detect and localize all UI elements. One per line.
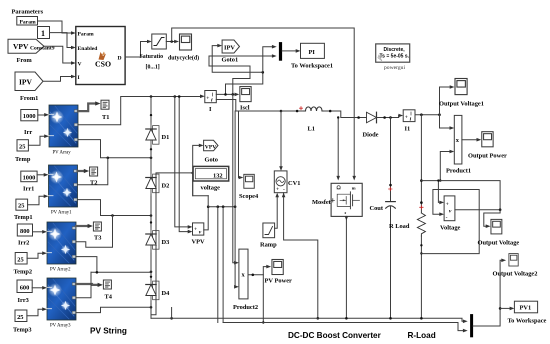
wire IPV to CSO I bbox=[43, 75, 76, 82]
svg-text:Output Voltage: Output Voltage bbox=[478, 240, 520, 247]
wire Irr1 to PV Array1 bbox=[37, 173, 48, 177]
wire product2 input1 drop bbox=[233, 94, 239, 264]
svg-text:m: m bbox=[352, 185, 356, 190]
wire display feed from PV string bottom bbox=[152, 173, 193, 315]
wire CV1 minus to return bus bbox=[282, 193, 319, 320]
svg-text:Voltage: Voltage bbox=[440, 225, 461, 232]
svg-text:Temp2: Temp2 bbox=[14, 269, 33, 276]
svg-text:+: + bbox=[405, 115, 408, 121]
svg-text:Irr3: Irr3 bbox=[18, 297, 29, 304]
scope Output Voltage2 bbox=[509, 254, 518, 266]
wire top node to I block bbox=[151, 95, 205, 99]
svg-text:T4: T4 bbox=[105, 294, 113, 301]
svg-text:I: I bbox=[78, 75, 80, 81]
voltage measurement block VPV bbox=[193, 223, 204, 236]
capacitor Cout wire lower bbox=[390, 207, 392, 318]
svg-text:Mosfet: Mosfet bbox=[312, 199, 332, 206]
wire I minus to main line bbox=[216, 100, 281, 112]
svg-text:V: V bbox=[78, 62, 82, 68]
junction top node VPV tap bbox=[174, 95, 177, 98]
constant Temp2 25 bbox=[15, 253, 27, 265]
wire L1 to switch node bbox=[325, 111, 363, 118]
constant Irr2 800 bbox=[17, 224, 32, 236]
svg-text:Irr2: Irr2 bbox=[18, 240, 29, 247]
wire VPV plus tap from top node bbox=[175, 97, 193, 229]
svg-text:Ramp: Ramp bbox=[260, 242, 277, 249]
svg-text:Temp1: Temp1 bbox=[14, 214, 33, 221]
junction above D3 bbox=[150, 221, 152, 223]
junction below D1 bbox=[150, 148, 152, 150]
current measurement block I1 bbox=[403, 110, 415, 123]
junction I signal tap A bbox=[224, 93, 227, 96]
powergui block bbox=[376, 44, 410, 62]
junction top node D bus bbox=[150, 95, 153, 98]
junction I signal tap B bbox=[232, 93, 235, 96]
svg-text:Diode: Diode bbox=[363, 132, 379, 139]
wire PV Array1 m to T2 (thick) bbox=[78, 170, 85, 172]
wire PV4 minus to bottom node bbox=[76, 307, 151, 312]
svg-text:Parameters: Parameters bbox=[12, 9, 44, 16]
PV Array block 1 bbox=[49, 105, 78, 147]
wire Mosfet drain drop bbox=[336, 116, 340, 180]
svg-text:Ts = 5e-05 s.: Ts = 5e-05 s. bbox=[380, 54, 410, 60]
controlled source CV1 wire top bbox=[279, 111, 283, 171]
wire Irr3 to PV Array3 bbox=[32, 286, 47, 290]
junction R Load bottom A bbox=[420, 244, 422, 246]
signal bus bottom bbox=[223, 323, 468, 333]
svg-text:25: 25 bbox=[17, 256, 23, 263]
capacitor Cout plates bbox=[386, 202, 396, 209]
scope Iscl bbox=[240, 87, 251, 102]
svg-text:To Workspace1: To Workspace1 bbox=[291, 63, 333, 70]
svg-text:Goto: Goto bbox=[205, 157, 219, 164]
current measurement block I bbox=[205, 91, 217, 104]
wire Product1 input 2 riser bbox=[439, 150, 454, 182]
svg-text:s: s bbox=[344, 210, 347, 215]
wire Voltage plus tap bbox=[437, 179, 444, 204]
svg-text:[0...1]: [0...1] bbox=[146, 65, 160, 71]
junction above resistor bbox=[420, 201, 423, 204]
PV Array block 4 bbox=[47, 278, 76, 320]
wire PV1 minus to node1 bbox=[78, 140, 151, 158]
wire Product1 to Output Power bbox=[462, 138, 481, 142]
from block IPV bbox=[15, 72, 43, 91]
svg-text:T1: T1 bbox=[102, 114, 109, 121]
svg-text:Iscl: Iscl bbox=[240, 105, 250, 112]
wire Temp3 to PV Array3 bbox=[27, 307, 47, 315]
constant Irr 1000 bbox=[21, 110, 38, 121]
junction before L1 bbox=[296, 110, 299, 113]
arrowhead into Mosfet gate bbox=[352, 176, 356, 181]
svg-text:Irr1: Irr1 bbox=[23, 186, 34, 193]
junction node2 on D bus bbox=[150, 214, 153, 217]
wire to PV1 bbox=[500, 307, 514, 311]
goto tag Param bbox=[17, 17, 38, 26]
svg-text:Saturatio: Saturatio bbox=[140, 54, 164, 60]
svg-text:-: - bbox=[446, 214, 448, 220]
junction bottom node bbox=[150, 306, 153, 309]
svg-text:PV Power: PV Power bbox=[265, 278, 293, 285]
svg-text:+: + bbox=[276, 187, 279, 193]
svg-text:D1: D1 bbox=[162, 134, 170, 141]
junction after diode bbox=[383, 116, 386, 119]
svg-text:25: 25 bbox=[19, 143, 25, 150]
wire Constant9 to CSO Enabled bbox=[50, 33, 76, 50]
wire Irr to PV Array bbox=[38, 113, 49, 117]
junction R Load top tap bbox=[420, 179, 423, 182]
wire PV Array3 m to T4 (thick) bbox=[76, 283, 98, 286]
goto tag Goto1 IPV bbox=[222, 40, 239, 53]
display block voltage 132 bbox=[193, 166, 229, 181]
to workspace icon T3 bbox=[93, 222, 101, 231]
svg-text:Cout: Cout bbox=[370, 205, 384, 212]
junction logging tap A bbox=[217, 205, 220, 208]
saturation block bbox=[152, 34, 167, 49]
wire to Output Voltage1 scope bbox=[440, 85, 455, 115]
svg-text:PV Array1: PV Array1 bbox=[51, 211, 72, 216]
svg-text:D3: D3 bbox=[162, 239, 170, 246]
junction R Load bottom B bbox=[420, 252, 422, 254]
svg-text:From: From bbox=[17, 57, 33, 64]
wire to Mux1 input 2 bbox=[209, 54, 277, 94]
mosfet block Mosfet bbox=[331, 183, 362, 216]
wire Param to CSO bbox=[38, 21, 76, 35]
svg-text:1: 1 bbox=[41, 29, 45, 38]
svg-text:VPV: VPV bbox=[192, 239, 206, 246]
constant Temp1 25 bbox=[16, 199, 28, 210]
subsystem U1 CSO bbox=[76, 27, 125, 85]
svg-text:Output Voltage1: Output Voltage1 bbox=[439, 101, 484, 108]
mux Mux2 bbox=[470, 314, 473, 337]
svg-text:D4: D4 bbox=[162, 290, 171, 297]
diode bus vertical segments bbox=[150, 97, 152, 319]
to workspace block PV1 bbox=[514, 301, 537, 313]
product block Product1 bbox=[454, 115, 462, 164]
wire to L1 bbox=[281, 110, 304, 112]
wire PV3 minus to node3 bbox=[76, 257, 151, 273]
junction after L1 bbox=[329, 110, 332, 113]
junction product2 input2 feed bbox=[234, 205, 237, 208]
wire IPV signal spiral to Goto1 bbox=[212, 44, 263, 95]
wire to Output Voltage scope bbox=[484, 210, 500, 228]
svg-text:Param: Param bbox=[20, 19, 36, 25]
wire PV2 plus riser bbox=[78, 158, 108, 185]
arrowhead into T2 bbox=[84, 169, 89, 173]
wire Mux1 to PI bbox=[282, 49, 300, 53]
svg-text:Temp: Temp bbox=[15, 156, 31, 163]
to workspace icon T1 bbox=[101, 100, 109, 109]
junction above D1 bbox=[150, 114, 152, 116]
wire logging drop B to signal bus bbox=[222, 207, 224, 323]
wire PV4 plus riser bbox=[76, 272, 91, 297]
junction CV1 tap bbox=[280, 110, 283, 113]
wire Ramp to CV1 control bbox=[275, 193, 279, 229]
mux Mux1 bbox=[279, 42, 282, 61]
wire Mosfet source to return bus bbox=[345, 216, 349, 318]
junction node3 on D bus bbox=[150, 271, 153, 274]
inductor L1 bbox=[304, 107, 325, 111]
wire VPV signal to logging bus right bbox=[208, 206, 235, 208]
svg-text:Param: Param bbox=[78, 32, 94, 38]
arrowhead into T3 bbox=[88, 224, 93, 228]
wire Temp2 to PV Array2 bbox=[27, 251, 47, 258]
wire logging drop A bbox=[217, 207, 219, 323]
wire Temp to PV Array bbox=[28, 134, 49, 145]
wire duty signal to Mosfet gate (top rail) bbox=[172, 28, 355, 177]
wire to Product1 input 1 bbox=[440, 115, 455, 130]
from block VPV bbox=[8, 39, 44, 53]
junction logging tap B bbox=[222, 205, 225, 208]
junction Cout tap bbox=[389, 116, 392, 119]
junction PV3 plus on node2 bbox=[111, 214, 114, 217]
wire VPV minus tap bbox=[170, 95, 192, 319]
junction Vout signal bbox=[499, 208, 502, 211]
PV Array block 2 bbox=[49, 165, 78, 207]
resistor R Load wire upper bbox=[420, 115, 422, 213]
wire PV Power signal drop to signal bus bbox=[262, 275, 264, 324]
capacitor Cout wire upper bbox=[390, 118, 392, 202]
svg-text:CSO: CSO bbox=[95, 60, 111, 69]
svg-text:Temp3: Temp3 bbox=[13, 327, 32, 334]
wire product2 input2 drop bbox=[234, 111, 239, 289]
junction PV4 plus on node3 bbox=[96, 271, 99, 274]
wire display junction down bbox=[192, 173, 194, 196]
wire scope4 feed drop bbox=[239, 111, 244, 179]
svg-text:Output Power: Output Power bbox=[468, 153, 507, 160]
svg-text:+: + bbox=[194, 227, 197, 233]
junction switch node bbox=[357, 116, 360, 119]
svg-text:PV String: PV String bbox=[90, 327, 127, 336]
PV Array block 3 bbox=[47, 222, 76, 264]
junction display input bbox=[191, 172, 194, 175]
junction return bus Mosfet bbox=[345, 317, 348, 320]
arrowhead into T4 bbox=[98, 283, 103, 287]
wire I signal out to Iscl bbox=[216, 93, 239, 97]
svg-text:132: 132 bbox=[213, 173, 223, 180]
wire Temp1 to PV Array1 bbox=[28, 194, 49, 204]
svg-text:+: + bbox=[446, 201, 449, 207]
svg-text:25: 25 bbox=[18, 203, 24, 210]
svg-text:powergui: powergui bbox=[384, 65, 405, 71]
resistor R Load zigzag bbox=[417, 213, 425, 236]
svg-text:-: - bbox=[283, 187, 285, 193]
svg-text:800: 800 bbox=[20, 228, 30, 235]
to workspace icon T2 bbox=[90, 167, 98, 176]
goto tag VPV bbox=[204, 140, 218, 151]
resistor R Load wire lower bbox=[420, 236, 422, 318]
scope Scope4 bbox=[244, 174, 254, 188]
constant Irr3 600 bbox=[17, 280, 32, 293]
diode D4 bbox=[146, 279, 159, 303]
voltage measurement block Voltage bbox=[444, 196, 455, 221]
to workspace block PI bbox=[301, 43, 325, 58]
svg-text:CV1: CV1 bbox=[288, 180, 300, 187]
svg-text:To Workspace: To Workspace bbox=[508, 318, 547, 325]
ramp block Ramp bbox=[263, 223, 275, 238]
svg-text:Product2: Product2 bbox=[233, 304, 258, 311]
junction on Cout wire bbox=[389, 184, 392, 187]
wire PV Array m to T1 (thick) bbox=[78, 104, 96, 112]
junction R Load tap bbox=[420, 113, 423, 116]
wire Diode to I1 bbox=[377, 114, 404, 118]
svg-text:1000: 1000 bbox=[23, 113, 36, 120]
svg-text:600: 600 bbox=[20, 285, 30, 292]
junction PV2 plus on node1 bbox=[107, 157, 110, 160]
wire CSO D to Saturation bbox=[125, 40, 152, 57]
svg-text:L1: L1 bbox=[308, 126, 315, 133]
diode D1 bbox=[146, 123, 159, 147]
red polarity plus Cout bbox=[389, 187, 392, 190]
junction PV1 tap bbox=[499, 307, 502, 310]
svg-text:Scope4: Scope4 bbox=[239, 193, 259, 200]
junction return bus Cout bbox=[389, 317, 392, 320]
wire PV3 plus riser bbox=[76, 216, 113, 248]
svg-text:IPV: IPV bbox=[224, 44, 235, 51]
wire PV2 minus to node2 bbox=[78, 200, 152, 216]
svg-text:VPV: VPV bbox=[13, 42, 29, 51]
svg-text:PV Array3: PV Array3 bbox=[50, 324, 71, 329]
wire Irr2 to PV Array2 bbox=[33, 230, 48, 234]
svg-text:Product1: Product1 bbox=[446, 168, 471, 175]
product block Product2 bbox=[239, 249, 248, 299]
wire PV1 plus to top node bbox=[78, 97, 151, 125]
wire VPV to CSO V bbox=[44, 46, 76, 65]
wire VPV signal Z to display input bbox=[193, 145, 209, 195]
svg-text:voltage: voltage bbox=[201, 185, 221, 192]
junction VPV signal bbox=[207, 205, 210, 208]
svg-text:Enabled: Enabled bbox=[78, 46, 99, 52]
svg-text:DC-DC Boost Converter: DC-DC Boost Converter bbox=[288, 331, 382, 340]
controlled source block CV1 bbox=[274, 171, 287, 193]
svg-text:PV Array: PV Array bbox=[53, 151, 72, 156]
scope Output Voltage1 bbox=[455, 78, 467, 94]
wire Voltage minus loop bbox=[421, 190, 479, 254]
arrowhead into T1 bbox=[95, 101, 100, 105]
return bus bottom bbox=[151, 318, 468, 323]
wire Saturation to dutycycle scope with junction bbox=[166, 40, 179, 44]
svg-text:From1: From1 bbox=[20, 95, 38, 102]
svg-text:Irr: Irr bbox=[24, 129, 32, 136]
svg-text:+: + bbox=[206, 96, 209, 102]
svg-text:I1: I1 bbox=[405, 126, 411, 133]
scope PV Power bbox=[272, 259, 283, 274]
arrowhead into goto VPV bbox=[199, 144, 204, 148]
diode Diode bbox=[367, 112, 377, 123]
diode D2 bbox=[146, 172, 159, 196]
svg-text:dutycycle(d): dutycycle(d) bbox=[168, 55, 199, 62]
svg-text:PV1: PV1 bbox=[520, 305, 532, 312]
arrowhead into Output Voltage2 bbox=[501, 259, 506, 263]
constant Temp 25 bbox=[17, 140, 28, 151]
svg-text:Output Voltage2: Output Voltage2 bbox=[493, 271, 538, 278]
svg-text:VPV: VPV bbox=[205, 144, 217, 150]
svg-text:1000: 1000 bbox=[23, 175, 36, 182]
to workspace icon T4 bbox=[103, 280, 111, 289]
svg-text:25: 25 bbox=[17, 314, 23, 321]
junction node1 on D bus bbox=[150, 157, 153, 160]
svg-text:Discrete,: Discrete, bbox=[384, 47, 406, 53]
wire Voltage output bbox=[455, 209, 500, 211]
scope Output Power bbox=[482, 132, 493, 147]
wire Vout sense line bbox=[421, 181, 500, 210]
wire VPV signal up to junction bbox=[204, 207, 208, 230]
svg-text:PI: PI bbox=[309, 49, 316, 56]
svg-text:R Load: R Load bbox=[389, 223, 410, 230]
wire Mux2 output riser bbox=[473, 260, 502, 326]
junction return bus R Load bbox=[420, 317, 423, 320]
svg-text:D: D bbox=[118, 56, 122, 62]
constant Irr1 1000 bbox=[21, 171, 37, 182]
red polarity tick L1 bbox=[300, 107, 303, 110]
wire to Mux1 input 1 bbox=[262, 45, 277, 74]
svg-text:R-Load: R-Load bbox=[408, 331, 436, 340]
svg-text:Goto1: Goto1 bbox=[222, 57, 239, 64]
svg-text:T2: T2 bbox=[90, 180, 97, 187]
vertical of Z wire bbox=[207, 196, 209, 207]
label Saturatio [0...1] bbox=[140, 54, 164, 71]
scope Output Voltage bbox=[491, 219, 502, 234]
constant Temp3 25 bbox=[15, 310, 27, 322]
constant Constant9 value 1 bbox=[38, 27, 50, 39]
diode D3 bbox=[146, 228, 159, 252]
svg-text:PV Array2: PV Array2 bbox=[50, 268, 71, 273]
wire switch node to Diode bbox=[362, 117, 367, 119]
svg-text:D2: D2 bbox=[162, 183, 170, 190]
svg-text:IPV: IPV bbox=[19, 78, 33, 87]
wire Product2 out to PV Power bbox=[248, 265, 271, 276]
svg-text:T3: T3 bbox=[94, 235, 101, 242]
red polarity plus R Load bbox=[420, 206, 423, 209]
wire I1 output to load rail bbox=[415, 114, 440, 116]
scope dutycycle(d) bbox=[180, 34, 192, 50]
junction Output Voltage1 tap bbox=[438, 113, 441, 116]
wire PV Array2 m to T3 (thick) bbox=[76, 225, 89, 227]
junction above D4 bbox=[150, 276, 152, 278]
